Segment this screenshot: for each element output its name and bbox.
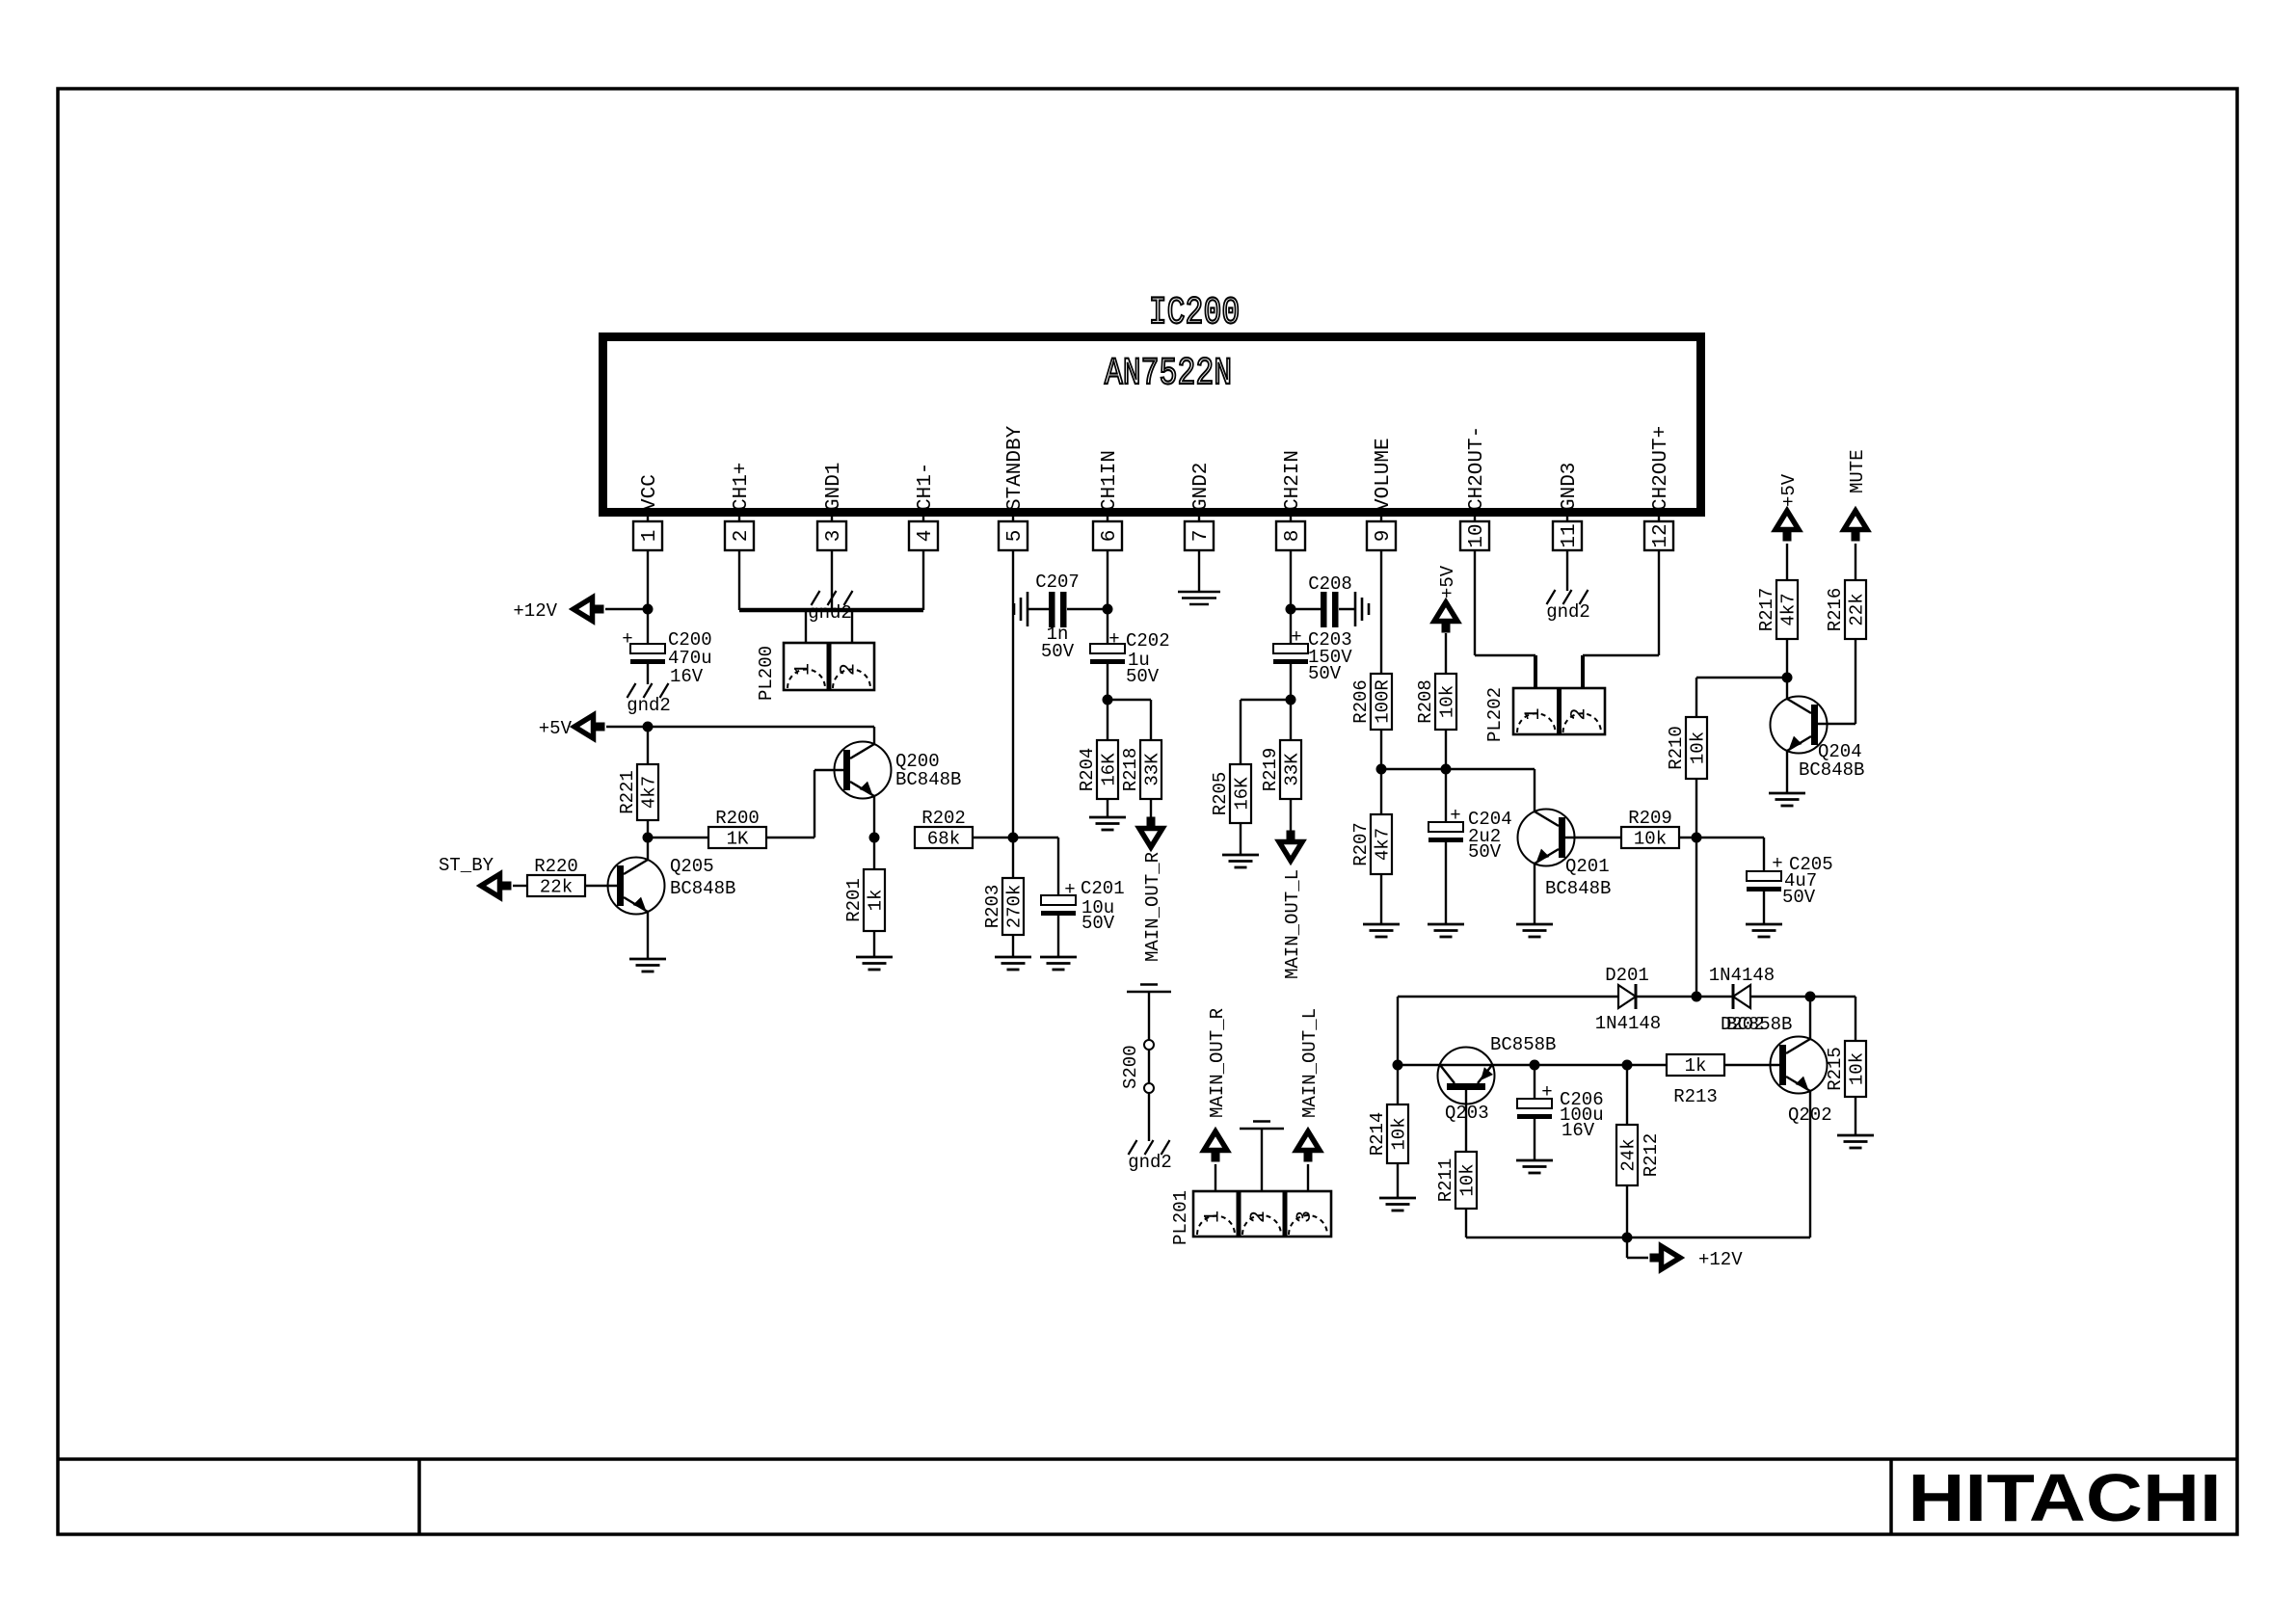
svg-text:+: +	[1064, 879, 1075, 900]
svg-text:R203: R203	[982, 885, 1003, 929]
svg-text:R214: R214	[1367, 1112, 1388, 1157]
svg-text:gnd2: gnd2	[1546, 601, 1590, 623]
svg-text:1: 1	[791, 663, 815, 676]
svg-text:R212: R212	[1641, 1133, 1662, 1178]
svg-text:+5V: +5V	[1778, 473, 1800, 507]
svg-text:GND1: GND1	[823, 463, 845, 511]
svg-text:22k: 22k	[540, 877, 573, 898]
svg-text:Q205: Q205	[670, 856, 714, 877]
svg-text:R205: R205	[1210, 772, 1231, 816]
svg-text:PL201: PL201	[1170, 1190, 1191, 1245]
svg-text:CH2IN: CH2IN	[1282, 450, 1304, 511]
svg-text:68k: 68k	[927, 829, 960, 850]
svg-text:6: 6	[1099, 530, 1121, 543]
svg-text:R210: R210	[1666, 726, 1687, 770]
svg-text:11: 11	[1559, 523, 1581, 547]
svg-text:R211: R211	[1435, 1158, 1456, 1203]
svg-text:+12V: +12V	[1698, 1249, 1743, 1270]
svg-text:R216: R216	[1825, 588, 1846, 632]
svg-text:2: 2	[731, 530, 753, 543]
svg-text:MAIN_OUT_L: MAIN_OUT_L	[1299, 1008, 1321, 1118]
svg-text:gnd2: gnd2	[808, 602, 852, 624]
svg-text:100R: 100R	[1373, 679, 1394, 724]
svg-text:+: +	[1450, 805, 1460, 826]
svg-text:CH1+: CH1+	[731, 463, 753, 511]
svg-text:S200: S200	[1120, 1045, 1141, 1089]
svg-text:+5V: +5V	[1437, 565, 1458, 599]
svg-text:R207: R207	[1350, 822, 1372, 866]
svg-text:2: 2	[837, 663, 861, 676]
svg-text:10k: 10k	[1688, 732, 1709, 764]
svg-text:+: +	[1108, 628, 1119, 650]
svg-text:+: +	[622, 628, 632, 650]
svg-text:PL200: PL200	[756, 646, 777, 701]
svg-text:C202: C202	[1126, 630, 1170, 652]
svg-text:R217: R217	[1756, 588, 1777, 632]
svg-text:33K: 33K	[1282, 753, 1303, 786]
svg-text:R219: R219	[1260, 748, 1281, 792]
svg-text:R202: R202	[921, 808, 966, 829]
svg-text:C201: C201	[1081, 878, 1125, 899]
svg-text:Q201: Q201	[1565, 856, 1610, 877]
svg-text:C207: C207	[1035, 572, 1080, 593]
svg-text:HITACHI: HITACHI	[1908, 1461, 2221, 1536]
svg-text:4k7: 4k7	[639, 776, 660, 809]
svg-text:BC848B: BC848B	[1545, 878, 1611, 899]
svg-text:12: 12	[1650, 523, 1672, 547]
svg-text:R213: R213	[1673, 1086, 1718, 1107]
svg-text:R200: R200	[715, 808, 760, 829]
svg-text:16K: 16K	[1232, 777, 1253, 811]
svg-text:R204: R204	[1077, 748, 1098, 792]
svg-text:STANDBY: STANDBY	[1004, 425, 1027, 511]
svg-text:BC858B: BC858B	[1490, 1034, 1556, 1055]
svg-text:GND3: GND3	[1559, 463, 1581, 511]
svg-text:GND2: GND2	[1190, 463, 1213, 511]
svg-text:7: 7	[1190, 530, 1213, 543]
svg-text:10k: 10k	[1847, 1052, 1868, 1085]
svg-text:33K: 33K	[1142, 753, 1163, 786]
svg-text:VOLUME: VOLUME	[1373, 438, 1395, 511]
svg-text:4k7: 4k7	[1373, 828, 1394, 861]
svg-text:16K: 16K	[1099, 753, 1120, 786]
svg-text:BC848B: BC848B	[895, 769, 961, 790]
svg-text:R215: R215	[1825, 1047, 1846, 1091]
svg-text:R208: R208	[1415, 679, 1436, 724]
svg-text:D201: D201	[1605, 965, 1649, 986]
svg-text:50V: 50V	[1308, 663, 1342, 684]
svg-text:R220: R220	[534, 856, 578, 877]
svg-text:+5V: +5V	[539, 718, 573, 739]
svg-text:10k: 10k	[1634, 829, 1667, 850]
svg-text:+: +	[1772, 853, 1782, 874]
svg-text:MAIN_OUT_L: MAIN_OUT_L	[1282, 869, 1303, 979]
svg-text:VCC: VCC	[639, 474, 661, 511]
svg-text:1: 1	[639, 530, 661, 543]
svg-text:PL202: PL202	[1484, 687, 1506, 742]
svg-text:MAIN_OUT_R: MAIN_OUT_R	[1207, 1008, 1228, 1118]
svg-text:50V: 50V	[1081, 913, 1115, 934]
svg-text:1k: 1k	[866, 890, 887, 912]
svg-text:AN7522N: AN7522N	[1105, 352, 1232, 395]
svg-text:IC200: IC200	[1149, 291, 1240, 334]
svg-text:1K: 1K	[727, 829, 749, 850]
svg-text:gnd2: gnd2	[1128, 1152, 1172, 1173]
svg-text:16V: 16V	[670, 666, 704, 687]
svg-text:10k: 10k	[1457, 1163, 1479, 1196]
svg-text:R218: R218	[1120, 748, 1141, 792]
svg-text:1N4148: 1N4148	[1709, 965, 1775, 986]
svg-text:+: +	[1541, 1081, 1552, 1103]
svg-text:1k: 1k	[1685, 1055, 1707, 1077]
svg-text:R201: R201	[843, 878, 865, 922]
svg-text:1N4148: 1N4148	[1595, 1013, 1661, 1034]
svg-text:270k: 270k	[1004, 885, 1026, 929]
svg-text:9: 9	[1373, 530, 1395, 543]
svg-text:24k: 24k	[1618, 1138, 1640, 1171]
svg-text:50V: 50V	[1468, 841, 1502, 863]
svg-text:5: 5	[1004, 530, 1027, 543]
svg-text:10k: 10k	[1389, 1117, 1410, 1150]
svg-text:3: 3	[823, 530, 845, 543]
svg-text:22k: 22k	[1847, 593, 1868, 625]
svg-text:CH2OUT-: CH2OUT-	[1466, 426, 1488, 511]
svg-text:4: 4	[915, 530, 937, 543]
svg-text:+: +	[1291, 626, 1301, 648]
svg-text:C208: C208	[1308, 573, 1352, 595]
svg-text:8: 8	[1282, 530, 1304, 543]
svg-text:CH1IN: CH1IN	[1099, 450, 1121, 511]
svg-text:BC848B: BC848B	[1799, 759, 1864, 781]
svg-text:1: 1	[1201, 1211, 1225, 1223]
svg-text:ST_BY: ST_BY	[439, 855, 494, 876]
svg-text:MUTE: MUTE	[1847, 449, 1868, 493]
svg-text:+12V: +12V	[513, 600, 557, 622]
svg-text:R221: R221	[617, 770, 638, 814]
svg-text:gnd2: gnd2	[627, 695, 671, 716]
svg-text:50V: 50V	[1041, 641, 1075, 662]
svg-text:CH2OUT+: CH2OUT+	[1650, 426, 1672, 511]
svg-text:10k: 10k	[1437, 685, 1458, 718]
svg-text:4k7: 4k7	[1778, 593, 1800, 625]
svg-text:R206: R206	[1350, 679, 1372, 724]
svg-text:R209: R209	[1628, 808, 1672, 829]
svg-text:50V: 50V	[1126, 666, 1160, 687]
svg-text:MAIN_OUT_R: MAIN_OUT_R	[1142, 852, 1163, 962]
svg-text:10: 10	[1466, 523, 1488, 547]
svg-text:50V: 50V	[1782, 887, 1816, 908]
svg-text:16V: 16V	[1562, 1120, 1595, 1141]
svg-text:CH1-: CH1-	[915, 463, 937, 511]
svg-text:BC858B: BC858B	[1726, 1014, 1792, 1035]
svg-text:BC848B: BC848B	[670, 878, 735, 899]
